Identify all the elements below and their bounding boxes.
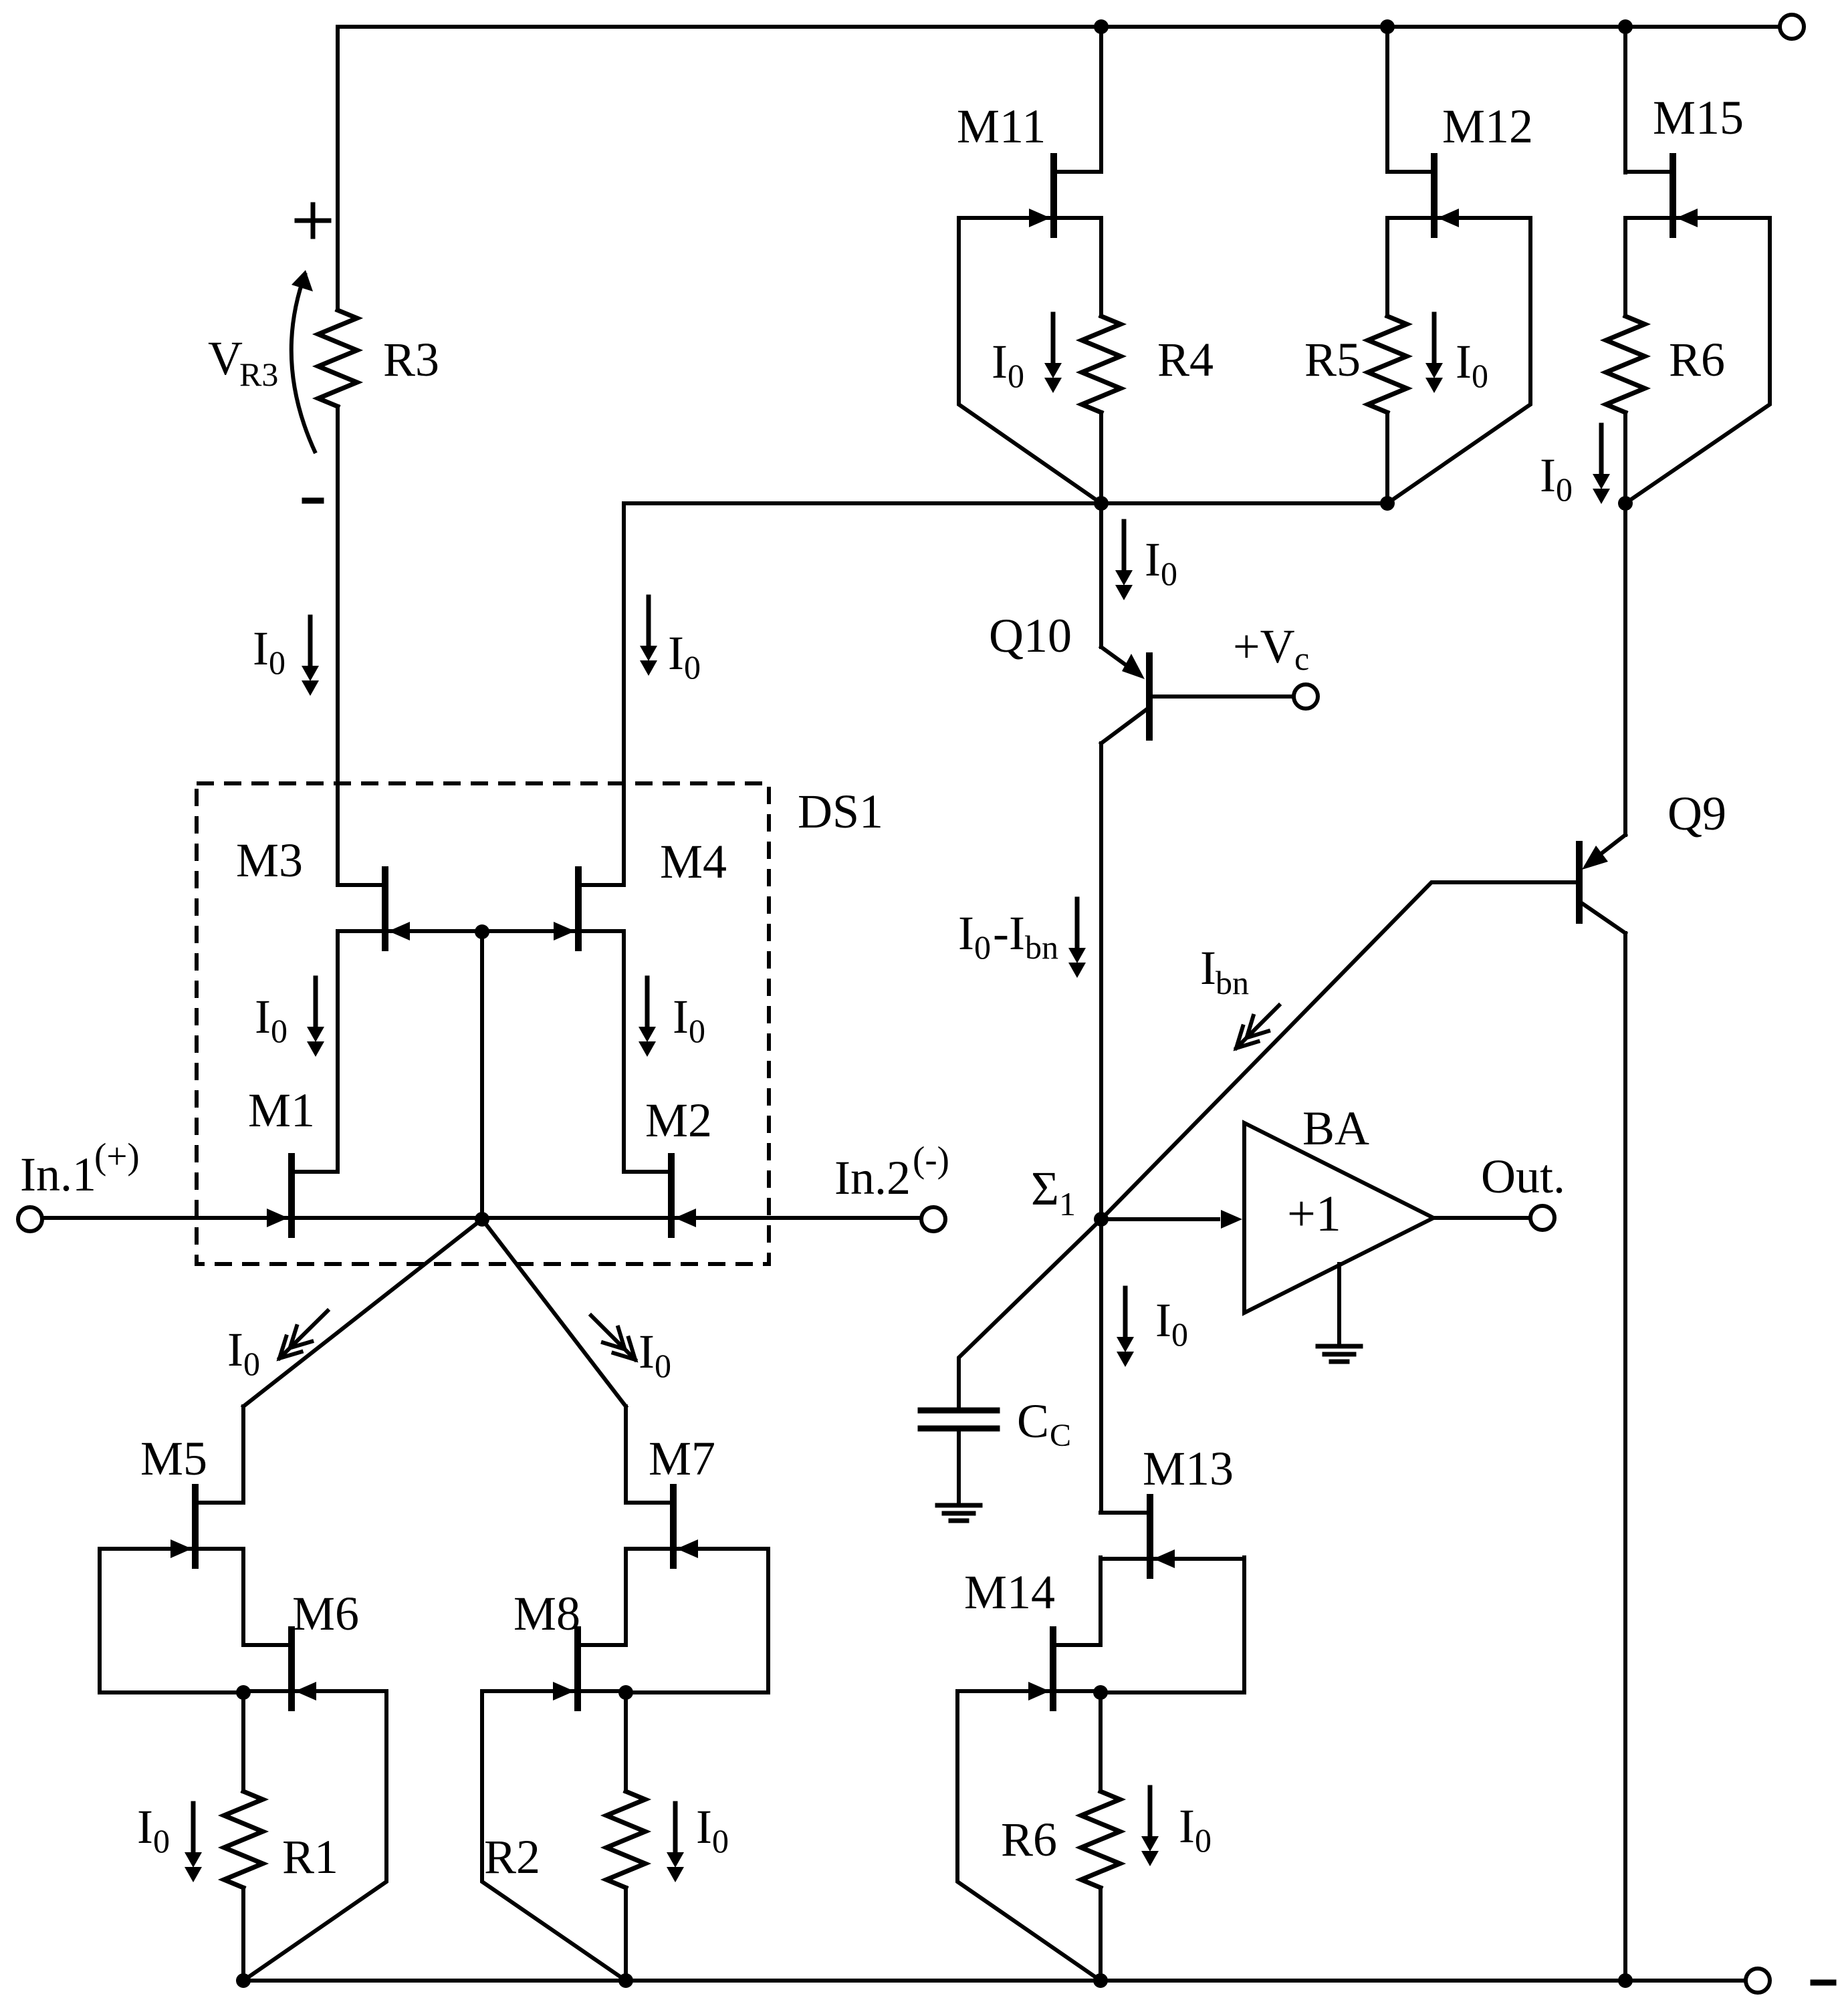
wire: R2 top lead	[624, 1692, 628, 1791]
svg-text:0: 0	[1161, 555, 1177, 592]
transistor M5	[192, 1487, 199, 1565]
node: R4 bottom / Q10 collector	[1094, 496, 1109, 511]
svg-text:0: 0	[1171, 1315, 1188, 1353]
node: bottom rail / R2	[618, 1973, 633, 1988]
current arrow Ibn	[1236, 1005, 1279, 1048]
svg-text:R5: R5	[1304, 333, 1361, 386]
terminal +Vc	[1294, 684, 1318, 709]
svg-text:I: I	[1155, 1293, 1171, 1347]
box DS1 (differential stage)	[197, 783, 769, 1264]
svg-text:I: I	[253, 622, 269, 675]
wire: BA output	[1433, 1216, 1531, 1220]
wire: rail to M15 drain	[1623, 27, 1627, 172]
current arrow I0 (R2)	[673, 1803, 678, 1855]
svg-text:I: I	[639, 1325, 655, 1378]
wire: node to Q10 collector	[1099, 503, 1103, 647]
wire: M7 drain drop	[624, 1406, 628, 1503]
node: R2 top	[618, 1685, 633, 1700]
current arrow I0 (R6 bottom)	[1148, 1787, 1153, 1839]
wire: Σ1 to buffer input	[1101, 1217, 1218, 1221]
resistor R2	[606, 1791, 645, 1888]
resistor R6 (top)	[1606, 316, 1645, 412]
wire: R1 top lead	[241, 1692, 245, 1791]
svg-text:I: I	[992, 335, 1008, 388]
svg-text:In.2: In.2	[834, 1151, 911, 1205]
wire: M4 source to M2 drain	[622, 932, 626, 1172]
svg-text:C: C	[1050, 1418, 1071, 1453]
current arrow I0 (to M5)	[279, 1311, 328, 1358]
wire: top supply rail with left drop	[338, 27, 1780, 310]
svg-text:0: 0	[243, 1345, 260, 1382]
resistor R1	[224, 1791, 263, 1888]
current arrow I0 (R4)	[1051, 314, 1056, 366]
transistor M1	[288, 1156, 295, 1235]
svg-text:In.1: In.1	[20, 1148, 96, 1201]
svg-text:I: I	[668, 626, 684, 680]
transistor M12	[1431, 156, 1438, 235]
transistor Q9	[1576, 844, 1583, 920]
transistor M4	[575, 870, 582, 948]
wire: M13 gate loop	[1101, 1557, 1244, 1692]
wire: M5 source to M6 drain	[241, 1549, 245, 1645]
svg-text:+V: +V	[1233, 620, 1295, 673]
terminal: positive supply (top right)	[1780, 15, 1804, 39]
svg-text:M5: M5	[140, 1432, 207, 1485]
svg-text:0: 0	[269, 644, 285, 681]
current arrow I0 (R5)	[1432, 314, 1437, 366]
svg-text:I: I	[137, 1800, 153, 1854]
svg-text:I: I	[1145, 533, 1161, 586]
svg-text:I: I	[958, 906, 974, 960]
svg-text:M15: M15	[1653, 91, 1744, 144]
svg-text:c: c	[1294, 640, 1309, 677]
terminal Out	[1530, 1206, 1555, 1230]
transistor M8	[574, 1630, 581, 1708]
svg-text:M14: M14	[964, 1565, 1055, 1619]
wire: M8 gate loop to bottom rail	[482, 1692, 626, 1981]
node: bottom rail / R1	[236, 1973, 251, 1988]
svg-text:bn: bn	[1025, 928, 1058, 966]
transistor Q10	[1146, 656, 1153, 737]
node: rail / M15 drain	[1618, 19, 1633, 34]
voltage arrow VR3	[292, 273, 316, 453]
wire: Q9 base to Σ1 (Ibn feed)	[1101, 882, 1576, 1219]
svg-text:BA: BA	[1302, 1102, 1369, 1155]
wire: M4 drain up to supply node line	[624, 503, 1387, 885]
svg-text:0: 0	[689, 1012, 705, 1049]
wire: M11 gate loop	[959, 218, 1101, 503]
svg-text:Q10: Q10	[989, 609, 1072, 662]
wire: M7 gate loop to R2 node	[626, 1549, 768, 1692]
svg-text:0: 0	[271, 1012, 288, 1049]
wire: M6 gate loop to bottom rail	[243, 1692, 386, 1981]
wire: BA ground stub	[1337, 1264, 1341, 1345]
svg-text:R2: R2	[484, 1830, 540, 1884]
resistor R6 (bottom)	[1081, 1791, 1120, 1888]
current arrow I0 (M4 drain)	[647, 597, 651, 648]
current arrow I0 (R6 top)	[1599, 425, 1604, 477]
wire: M14 gate loop to bottom rail	[957, 1692, 1101, 1981]
wire: R6 bottom top lead	[1099, 1692, 1103, 1791]
wire: R2 bottom lead	[624, 1888, 628, 1981]
label - (VR3 polarity)	[305, 498, 321, 504]
transistor M14	[1050, 1630, 1056, 1708]
transistor M6	[288, 1630, 295, 1708]
wire: M3 source to M1 drain	[336, 932, 340, 1172]
current arrow I0 (to M7)	[591, 1315, 635, 1360]
svg-text:M1: M1	[248, 1084, 315, 1137]
node: differential pair tail	[475, 1212, 489, 1227]
node: R6 (bottom) top	[1093, 1685, 1108, 1700]
wire: R1 bottom lead	[241, 1888, 245, 1981]
svg-text:0: 0	[655, 1347, 671, 1384]
svg-text:M13: M13	[1143, 1442, 1234, 1495]
wire: M12 gate loop	[1387, 218, 1530, 503]
svg-text:0: 0	[1008, 357, 1024, 394]
wire: M5 drain drop	[241, 1406, 245, 1503]
svg-text:M8: M8	[513, 1587, 580, 1640]
svg-text:+1: +1	[1287, 1186, 1341, 1242]
resistor R3	[318, 310, 357, 406]
svg-text:Q9: Q9	[1668, 787, 1726, 840]
current arrow I0 (into M13)	[1123, 1288, 1128, 1340]
svg-text:I: I	[227, 1323, 243, 1376]
svg-text:M3: M3	[236, 834, 303, 887]
current arrow I0-Ibn	[1075, 899, 1080, 951]
ground (BA)	[1318, 1344, 1361, 1349]
svg-text:M4: M4	[660, 835, 727, 888]
wire: R4 to supply node	[1099, 412, 1103, 503]
node: M3/M4 common gate	[475, 924, 489, 939]
wire: R3 bottom to M3 drain	[336, 406, 340, 885]
wire: bottom rail	[243, 1979, 1746, 1983]
svg-text:I: I	[1540, 449, 1556, 502]
ground (Cc)	[937, 1503, 980, 1508]
svg-text:I: I	[1456, 335, 1472, 388]
node: rail / M11 drain	[1094, 19, 1109, 34]
svg-text:I: I	[1179, 1799, 1195, 1853]
svg-text:R3: R3	[383, 333, 439, 386]
terminal In.2	[921, 1207, 945, 1231]
svg-text:R4: R4	[1157, 333, 1214, 386]
svg-text:Σ: Σ	[1031, 1162, 1059, 1215]
wire: M5 gate loop to R1 node	[100, 1549, 243, 1692]
svg-text:DS1: DS1	[798, 785, 883, 838]
svg-text:R6: R6	[1669, 333, 1725, 386]
svg-text:0: 0	[1472, 357, 1488, 394]
svg-text:M12: M12	[1442, 100, 1533, 153]
node: Σ1	[1094, 1212, 1109, 1227]
svg-text:I: I	[1200, 941, 1216, 995]
wire: M11 source to R4	[1099, 218, 1103, 316]
svg-text:-I: -I	[993, 906, 1025, 960]
svg-text:M6: M6	[292, 1587, 359, 1640]
wire: Σ1 to Cc (diagonal)	[959, 1219, 1101, 1410]
wire: tail to M7 drain (diagonal)	[482, 1219, 626, 1406]
svg-text:I: I	[255, 990, 271, 1043]
svg-text:0: 0	[153, 1822, 170, 1860]
svg-text:I: I	[696, 1800, 712, 1854]
transistor M13	[1147, 1497, 1153, 1576]
svg-text:M11: M11	[957, 100, 1046, 153]
wire: tail to M5 drain (diagonal)	[243, 1219, 482, 1406]
svg-text:M2: M2	[645, 1094, 712, 1147]
node: bottom rail / Q9	[1618, 1973, 1633, 1988]
capacitor Cc	[921, 1408, 997, 1414]
svg-text:0: 0	[974, 928, 991, 966]
transistor M15	[1670, 156, 1676, 235]
transistor M7	[670, 1487, 677, 1565]
wire: R6 node to Q9 emitter	[1623, 503, 1627, 835]
node: R5 bottom	[1380, 496, 1395, 511]
terminal In.1	[18, 1207, 42, 1231]
svg-text:Out.: Out.	[1481, 1150, 1565, 1203]
svg-text:V: V	[208, 332, 243, 385]
current arrow I0 (M1 branch)	[314, 978, 318, 1029]
svg-text:0: 0	[1195, 1821, 1212, 1859]
wire: R6 bottom lead	[1099, 1888, 1103, 1981]
wire: M12 source to R5	[1385, 218, 1389, 316]
current arrow I0 (R3 branch)	[308, 617, 313, 668]
svg-text:R6: R6	[1001, 1813, 1057, 1866]
svg-text:1: 1	[1059, 1185, 1076, 1223]
svg-text:R3: R3	[239, 356, 278, 393]
node: R1 top	[236, 1685, 251, 1700]
svg-text:0: 0	[712, 1822, 729, 1860]
wire: M13 source to M14 drain	[1099, 1557, 1103, 1645]
svg-text:I: I	[673, 990, 689, 1043]
wire: M15 source to R6	[1623, 218, 1627, 316]
svg-text:M7: M7	[649, 1432, 715, 1485]
wire: M7 source to M8 drain	[624, 1549, 628, 1645]
wire: rail to M11 drain	[1099, 27, 1103, 172]
current arrow I0 (into Q10)	[1122, 521, 1127, 573]
terminal: negative supply (bottom right)	[1746, 1969, 1770, 1993]
transistor M2	[668, 1156, 675, 1235]
wire: Cc to ground	[957, 1431, 961, 1504]
wire: Q10 emitter to node Σ1	[1099, 743, 1103, 1219]
svg-text:0: 0	[1556, 471, 1573, 508]
svg-text:bn: bn	[1216, 964, 1249, 1001]
wire: Q9 collector to bottom rail	[1623, 933, 1627, 1981]
current arrow I0 (R1)	[191, 1803, 196, 1855]
label - (negative supply)	[1813, 1980, 1833, 1986]
svg-text:0: 0	[684, 648, 701, 686]
transistor M11	[1050, 156, 1057, 235]
wire: M15 gate loop	[1625, 218, 1770, 503]
resistor R4	[1082, 316, 1121, 412]
wire: Σ1 to M13 drain	[1099, 1219, 1103, 1513]
wire: R6 to Q9 emitter node	[1623, 412, 1627, 503]
current arrow I0 (M2 branch)	[645, 978, 650, 1029]
wire: gate node to tail node	[480, 932, 484, 1219]
resistor R5	[1368, 316, 1407, 412]
svg-text:(+): (+)	[94, 1136, 140, 1176]
wire: R5 to supply node	[1385, 412, 1389, 503]
svg-text:C: C	[1017, 1394, 1049, 1448]
wire: rail to M12 drain	[1385, 27, 1389, 172]
node: rail / M12 drain	[1380, 19, 1395, 34]
node: R6 bottom / Q9 emitter	[1618, 496, 1633, 511]
buffer amplifier BA (+1)	[1244, 1123, 1433, 1313]
label + (VR3 polarity)	[297, 219, 329, 223]
svg-text:R1: R1	[282, 1830, 338, 1884]
svg-text:(-): (-)	[913, 1139, 949, 1180]
node: bottom rail / R6	[1093, 1973, 1108, 1988]
transistor M3	[382, 870, 388, 948]
